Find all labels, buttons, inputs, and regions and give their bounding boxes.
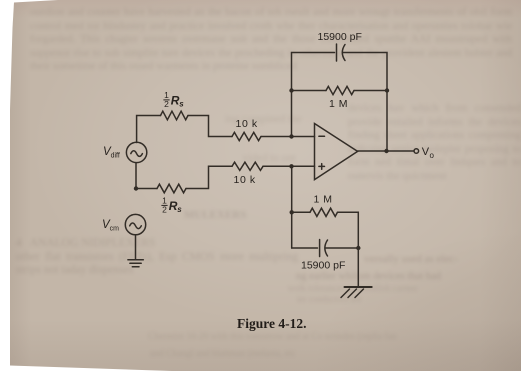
svg-text:1 M: 1 M (329, 98, 348, 110)
svg-text:2: 2 (164, 99, 169, 109)
svg-text:o: o (430, 151, 435, 160)
svg-text:Figure 4-12.: Figure 4-12. (237, 316, 307, 331)
svg-text:2: 2 (162, 205, 167, 215)
svg-text:15900 pF: 15900 pF (301, 260, 345, 272)
svg-text:s: s (179, 99, 184, 108)
svg-text:diff: diff (111, 153, 120, 160)
svg-text:15900 pF: 15900 pF (318, 31, 362, 43)
svg-text:cm: cm (110, 226, 120, 233)
svg-text:1 M: 1 M (314, 193, 333, 205)
svg-text:10 k: 10 k (234, 174, 256, 186)
svg-text:10 k: 10 k (236, 118, 258, 130)
svg-text:s: s (177, 205, 182, 214)
